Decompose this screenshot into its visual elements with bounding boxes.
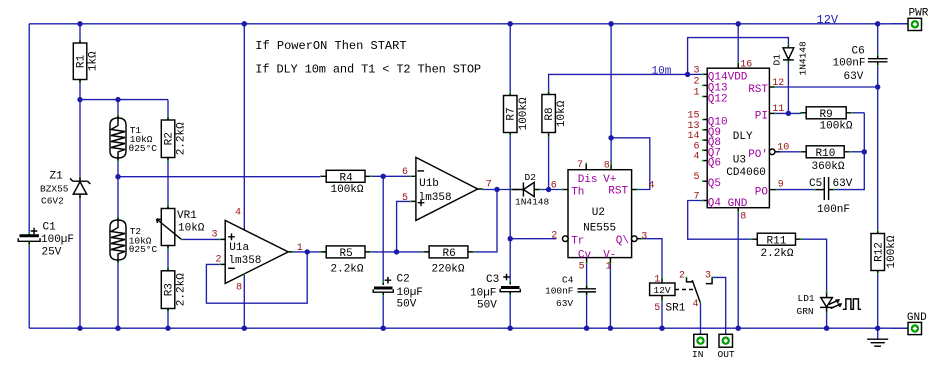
svg-text:50V: 50V (397, 299, 417, 311)
wire U2 Q to SR1 coil (642, 239, 663, 278)
svg-text:3: 3 (705, 271, 711, 282)
U2 pin 4 RST stub (632, 189, 638, 191)
svg-text:63V: 63V (833, 178, 853, 190)
svg-text:Tr: Tr (571, 236, 584, 248)
capacitor C1 (18, 222, 74, 259)
wire RST loop to U2 pin4 (611, 138, 650, 190)
resistor R4 (321, 170, 371, 196)
svg-text:50V: 50V (477, 300, 497, 312)
U2 pin 1 V- stub (609, 258, 611, 263)
wire C5 right to R9/R10 column (834, 113, 865, 190)
svg-text:25V: 25V (42, 247, 62, 259)
wire T1 bottom to divider node (117, 158, 119, 177)
resistor R3 (161, 268, 187, 312)
svg-text:U1a: U1a (229, 242, 249, 254)
wire 6V2 rail (R1 bottom to R2 top) (80, 99, 168, 101)
U3 pin 14 stub (703, 139, 707, 141)
wire R9 right lead (852, 112, 865, 114)
wire R4 node down to C2 (382, 176, 384, 285)
svg-text:BZX55: BZX55 (40, 184, 69, 195)
svg-text:R3: R3 (164, 283, 176, 296)
svg-text:PWR: PWR (909, 8, 929, 20)
potentiometer VR1 (157, 206, 205, 249)
svg-text:Q5: Q5 (708, 178, 721, 190)
svg-text:Q12: Q12 (708, 94, 728, 106)
wire R12 bottom to ground (877, 271, 879, 329)
resistor R8 (542, 92, 568, 137)
wire left border 12V to C1 (28, 24, 30, 236)
svg-text:PO': PO' (748, 149, 768, 161)
wire R2 bottom to VR1 top (167, 158, 169, 209)
wire LED bottom to ground (826, 313, 828, 329)
diode D2 (512, 172, 550, 208)
svg-text:R5: R5 (340, 248, 353, 260)
diode D1 (772, 41, 809, 76)
SR1 linkage dashed (675, 289, 694, 291)
resistor R5 (321, 246, 371, 276)
svg-text:100kΩ: 100kΩ (820, 121, 853, 133)
svg-text:R2: R2 (164, 132, 176, 145)
svg-text:Cv: Cv (578, 249, 592, 261)
wire CD4060 pin8 GND to ground (737, 212, 739, 328)
svg-text:5: 5 (693, 172, 699, 183)
svg-text:4: 4 (693, 152, 699, 163)
SR1 coil (661, 278, 663, 301)
SR1 contact pin 2 (687, 277, 693, 282)
svg-text:12: 12 (772, 78, 784, 89)
wire CD4060 PI pin11 to R9 (775, 112, 801, 114)
wire U2 V- to ground (609, 263, 611, 329)
LED LD1 (797, 292, 842, 318)
svg-text:SR1: SR1 (666, 303, 686, 315)
svg-text:2: 2 (551, 231, 557, 242)
svg-text:7: 7 (577, 160, 583, 171)
wire T2 bottom to ground (117, 260, 119, 328)
svg-text:U2: U2 (592, 207, 605, 219)
capacitor C4 (545, 275, 596, 309)
svg-text:8: 8 (740, 212, 746, 223)
wire tap to U1b pin5 (397, 201, 411, 252)
svg-text:C5: C5 (809, 178, 822, 190)
svg-text:63V: 63V (844, 71, 864, 83)
svg-text:C1: C1 (43, 222, 57, 234)
relay SR1 (650, 271, 713, 315)
svg-text:PO: PO (755, 187, 769, 199)
svg-text:GND: GND (907, 312, 927, 324)
port GND (890, 312, 927, 335)
thermistor T1 (110, 115, 157, 161)
wire R11 to LED (801, 239, 827, 292)
svg-text:OUT: OUT (718, 349, 735, 360)
svg-text:1kΩ: 1kΩ (88, 51, 100, 71)
wire R1 bottom to 6V2 rail (79, 80, 81, 100)
wire divider node to R4 (118, 176, 321, 178)
svg-text:R6: R6 (443, 248, 456, 260)
svg-text:7: 7 (693, 192, 699, 203)
svg-text:C6V2: C6V2 (41, 196, 64, 207)
wire R10 right lead (850, 151, 865, 153)
wire VR1 wiper to U1a pin3 (182, 238, 221, 240)
wire ground bottom rail (29, 327, 908, 329)
svg-text:8: 8 (604, 161, 610, 172)
svg-text:5: 5 (654, 303, 660, 314)
wire SR1 pin3 to OUT pad (712, 277, 726, 334)
wire U1a pin8 to ground (243, 274, 245, 328)
svg-text:V+: V+ (603, 174, 616, 186)
svg-text:R1: R1 (76, 54, 88, 68)
capacitor C3 (470, 274, 520, 312)
wire R6 right riser to U1b output row (473, 190, 497, 252)
svg-text:R4: R4 (340, 173, 354, 185)
svg-text:6: 6 (402, 167, 408, 178)
U2 pin 8 V+ stub (610, 164, 612, 170)
wire U2 Cv down (586, 263, 588, 289)
svg-text:10µF: 10µF (470, 288, 496, 300)
svg-text:NE555: NE555 (583, 223, 616, 235)
wire SR1 coil bottom to ground (661, 301, 663, 329)
wire C4 bottom to ground (586, 293, 588, 329)
SR1 contact pin 3 (706, 277, 712, 283)
svg-text:VR1: VR1 (177, 210, 197, 222)
wire Tr node to U2 Tr pin (510, 238, 556, 240)
wire R2 top (167, 100, 169, 120)
svg-text:U1b: U1b (419, 178, 439, 190)
wire C6 bottom to RST node (877, 63, 879, 87)
svg-text:R8: R8 (544, 107, 556, 120)
svg-text:1: 1 (654, 275, 660, 286)
resistor R9 (801, 107, 853, 133)
U3 pin 2 stub (703, 84, 707, 86)
resistor R1 (73, 40, 99, 83)
svg-text:lm358: lm358 (419, 192, 452, 204)
U3 pin 10 bubble (769, 149, 775, 155)
svg-text:100µF: 100µF (41, 234, 74, 246)
wire R7 bottom down across to Tr node and C3 (509, 133, 511, 285)
svg-text:3: 3 (693, 65, 699, 76)
capacitor C2 (373, 274, 423, 311)
wire RST node down to R12 (877, 87, 879, 234)
thermistor T2 (110, 217, 158, 263)
svg-text:PI: PI (755, 110, 768, 122)
wire CD4060 PO' pin10 to R10 (780, 151, 802, 153)
U2 pin 3 Q bubble (632, 236, 638, 242)
svg-text:LD1: LD1 (798, 293, 815, 304)
port PWR (890, 8, 928, 31)
square wave symbol (843, 299, 861, 309)
svg-text:Z1: Z1 (50, 171, 64, 183)
LED arrows (829, 300, 839, 304)
svg-text:10kΩ: 10kΩ (556, 100, 568, 127)
svg-text:C3: C3 (486, 274, 499, 286)
svg-text:If PowerON Then START: If PowerON Then START (255, 39, 406, 53)
svg-text:C2: C2 (397, 274, 410, 286)
wire CD4060 RST pin12 to C6/R12 node (775, 86, 878, 88)
svg-text:10kΩ: 10kΩ (178, 223, 205, 235)
wire C3 bottom to ground (509, 292, 511, 329)
svg-text:220kΩ: 220kΩ (432, 264, 465, 276)
wire R8 top to 10m net (549, 74, 688, 94)
svg-text:10: 10 (777, 142, 789, 153)
resistor R7 (504, 93, 531, 136)
svg-text:RST: RST (748, 84, 768, 96)
svg-text:8: 8 (236, 283, 242, 294)
svg-text:lm358: lm358 (228, 255, 261, 267)
wire Z1 top (79, 100, 81, 181)
svg-text:Dis: Dis (578, 174, 598, 186)
svg-text:100kΩ: 100kΩ (886, 235, 898, 268)
U3 pin 1 stub (703, 96, 707, 98)
op-amp U1a (212, 207, 303, 293)
svg-text:100nF: 100nF (545, 285, 574, 296)
U3 pin 8 stub (737, 208, 739, 212)
resistor R12 (871, 231, 898, 274)
wire V+ junction to U2 pin8 (610, 138, 612, 165)
wire 10m riser to D1 (688, 38, 789, 75)
svg-text:4: 4 (693, 299, 699, 310)
wire U1a pin2 feedback loop (206, 252, 307, 303)
U3 pin 9 stub (769, 189, 776, 191)
wire C6 top from 12V (877, 24, 879, 58)
U3 pin 12 stub (769, 86, 775, 88)
svg-text:2: 2 (693, 76, 699, 87)
wire T1 top (117, 100, 119, 118)
U2 pin 2 Tr bubble (563, 236, 569, 242)
svg-text:100kΩ: 100kΩ (331, 184, 364, 196)
U2 pin 6 Th stub (563, 189, 569, 191)
port OUT (718, 334, 735, 360)
svg-text:Q6: Q6 (708, 158, 721, 170)
wire D1 cathode down to PI node (787, 62, 789, 113)
U3 pin 6 stub (703, 149, 707, 151)
svg-text:2.2kΩ: 2.2kΩ (176, 122, 188, 155)
svg-text:2.2kΩ: 2.2kΩ (331, 264, 364, 276)
svg-text:R10: R10 (816, 148, 836, 160)
zener diode Z1 (40, 171, 90, 207)
wire CD4060 Q4 pin7 to R11 (688, 201, 752, 240)
resistor R10 (801, 146, 850, 173)
svg-text:3: 3 (212, 230, 218, 241)
svg-text:12V: 12V (817, 13, 839, 27)
svg-text:1N4148: 1N4148 (515, 197, 550, 208)
capacitor C5 (809, 177, 853, 216)
U3 pin 15 stub (703, 119, 707, 121)
wire T2 top (117, 177, 119, 220)
svg-text:U3: U3 (733, 155, 746, 167)
timer IC U2 NE555 (551, 160, 655, 272)
pin end markers (28, 39, 878, 313)
svg-text:C4: C4 (562, 275, 574, 286)
wire 12V top rail (29, 23, 908, 25)
svg-text:2.2kΩ: 2.2kΩ (761, 248, 794, 260)
wire R1 top lead to 12V (79, 24, 81, 43)
wire V+ branch from 12V (610, 24, 612, 138)
svg-text:4: 4 (235, 207, 241, 218)
wire R5 right to R6 left with pin5 tap (371, 251, 424, 253)
resistor R11 (752, 233, 802, 260)
svg-text:V-: V- (603, 249, 616, 261)
svg-text:9: 9 (778, 179, 784, 190)
svg-text:6: 6 (551, 180, 557, 191)
wire R3 bottom to ground (167, 309, 169, 329)
wire CD4060 PO pin9 to C5 (777, 189, 816, 191)
svg-text:360kΩ: 360kΩ (812, 161, 845, 173)
U3 pin 7 stub (703, 200, 707, 202)
svg-text:θ25°C: θ25°C (129, 143, 158, 154)
U3 pin 4 stub (703, 160, 707, 162)
wire R4 right to U1b pin6 (371, 175, 411, 177)
svg-text:100nF: 100nF (817, 204, 850, 216)
capacitor C6 (833, 46, 888, 84)
svg-text:D2: D2 (525, 172, 537, 183)
svg-text:10µF: 10µF (397, 287, 423, 299)
svg-text:R12: R12 (874, 242, 886, 262)
wire C2 bottom to ground (382, 292, 384, 328)
svg-text:IN: IN (692, 349, 703, 360)
wire U1a output to R5 (292, 251, 321, 253)
svg-text:100nF: 100nF (833, 58, 866, 70)
svg-text:Q\: Q\ (616, 235, 629, 247)
svg-text:100kΩ: 100kΩ (518, 97, 530, 130)
svg-text:GRN: GRN (797, 306, 814, 317)
svg-text:5: 5 (402, 193, 408, 204)
svg-text:63V: 63V (556, 298, 573, 309)
wire C1 to ground rail (28, 242, 30, 329)
svg-text:2: 2 (679, 271, 685, 282)
wire Z1 bottom to ground (79, 195, 81, 328)
svg-text:1N4148: 1N4148 (798, 41, 809, 76)
wire D2 to Th node (540, 189, 563, 191)
wire 10m net to CD4060 pin3 (688, 73, 703, 75)
svg-text:C6: C6 (852, 46, 865, 58)
svg-text:RST: RST (608, 186, 628, 198)
svg-text:R9: R9 (820, 109, 833, 121)
svg-text:4: 4 (649, 180, 655, 191)
svg-text:CD4060: CD4060 (726, 167, 766, 179)
svg-text:R11: R11 (767, 236, 787, 248)
wire VR1 bottom to R3 top (167, 246, 169, 271)
port IN (692, 334, 707, 360)
U3 pin 13 stub (703, 129, 707, 131)
resistor R6 (423, 246, 473, 276)
wire CD4060 pin16 VDD to 12V (737, 24, 739, 63)
svg-text:θ25°C: θ25°C (129, 244, 158, 255)
svg-text:12V: 12V (654, 285, 671, 296)
op-amp U1b (402, 157, 492, 220)
svg-text:DLY: DLY (733, 131, 753, 143)
svg-text:1: 1 (693, 88, 699, 99)
svg-text:GND: GND (728, 198, 748, 210)
wire R8 bottom to Th node (548, 134, 550, 190)
svg-text:2.2kΩ: 2.2kΩ (176, 273, 188, 306)
wire ground symbol stem (877, 328, 879, 338)
svg-text:3: 3 (641, 231, 647, 242)
U3 pin 11 stub (769, 112, 775, 114)
wire U1a pin4 to 12V (243, 24, 245, 229)
svg-text:If DLY 10m and T1 < T2 Then ST: If DLY 10m and T1 < T2 Then STOP (255, 63, 481, 77)
svg-text:7: 7 (486, 180, 492, 191)
svg-text:16: 16 (740, 60, 752, 71)
svg-text:5: 5 (579, 262, 585, 273)
U3 pin 16 stub (737, 63, 739, 69)
U2 pin 7 Dis stub (585, 164, 587, 170)
wire R7 top to 12V (509, 24, 511, 96)
svg-text:Th: Th (571, 186, 584, 198)
resistor R2 (161, 117, 187, 161)
svg-text:1: 1 (297, 243, 303, 254)
SR1 contact arm (692, 280, 700, 302)
U3 pin 3 stub (703, 73, 707, 75)
svg-text:Q4: Q4 (708, 198, 722, 210)
svg-text:D1: D1 (772, 54, 783, 66)
U3 pin 5 stub (703, 180, 707, 182)
svg-text:10m: 10m (652, 65, 672, 77)
svg-text:R7: R7 (506, 107, 518, 120)
counter IC U3 CD4060 (687, 60, 789, 223)
ground symbol (867, 339, 888, 346)
wire U1b output to D2 (482, 189, 518, 191)
wire SR1 pin4 to IN pad (700, 303, 702, 334)
U2 pin 5 Cv stub (586, 258, 588, 263)
